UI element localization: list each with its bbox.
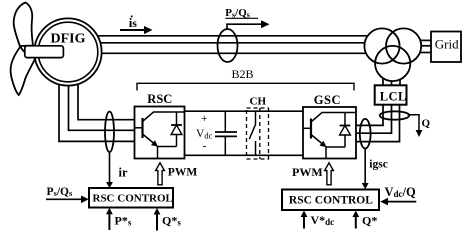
svg-text:Q: Q	[422, 118, 431, 130]
svg-text:igsc: igsc	[369, 159, 388, 171]
svg-text:GSC: GSC	[314, 93, 341, 107]
svg-text:ir: ir	[119, 166, 128, 180]
svg-text:RSC: RSC	[147, 92, 172, 106]
svg-text:B2B: B2B	[232, 67, 254, 81]
svg-text:DFIG: DFIG	[51, 31, 86, 46]
svg-text:Grid: Grid	[435, 36, 459, 51]
svg-text:Ps/Qs: Ps/Qs	[225, 7, 250, 20]
svg-text:Ps/Qs: Ps/Qs	[47, 186, 73, 198]
svg-text:PWM: PWM	[292, 165, 323, 179]
svg-text:Q*: Q*	[362, 214, 377, 228]
svg-text:RSC CONTROL: RSC CONTROL	[289, 194, 373, 206]
svg-text:+: +	[201, 113, 208, 125]
svg-text:CH: CH	[250, 96, 267, 108]
svg-text:-: -	[203, 139, 207, 153]
svg-text:RSC CONTROL: RSC CONTROL	[93, 192, 173, 204]
svg-text:is: is	[129, 15, 138, 30]
svg-text:PWM: PWM	[168, 166, 198, 178]
svg-text:LCL: LCL	[380, 89, 407, 103]
